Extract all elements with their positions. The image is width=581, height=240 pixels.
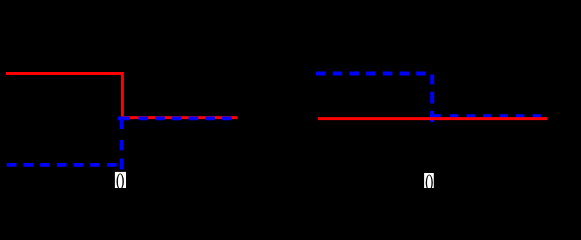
right label box xyxy=(424,173,434,188)
left plot: blue dashed low segment xyxy=(7,163,122,167)
right plot: blue dashed mid segment under red xyxy=(450,114,541,118)
left plot: blue dashed mid segment over red xyxy=(138,117,237,121)
left label box xyxy=(115,172,126,188)
right plot: blue riser dash piece a xyxy=(430,75,434,85)
right plot: blue riser dash piece b xyxy=(430,92,434,104)
right plot: blue riser dash piece c xyxy=(430,111,434,122)
right label digit 0 xyxy=(426,175,433,191)
left plot: blue mid elbow dash xyxy=(118,117,130,121)
left plot: blue riser dash piece a xyxy=(120,118,124,128)
right plot: blue mid elbow dash xyxy=(430,114,441,118)
left label digit 0 xyxy=(117,174,124,190)
right plot: red solid mid line on top xyxy=(318,117,547,120)
left plot: blue riser dash piece b xyxy=(120,140,124,150)
left plot: blue riser dash piece c xyxy=(120,159,124,170)
left plot: red solid step (high level, drop at x=122.4, mid level) xyxy=(6,74,237,118)
right plot: blue dashed high segment xyxy=(316,72,432,76)
